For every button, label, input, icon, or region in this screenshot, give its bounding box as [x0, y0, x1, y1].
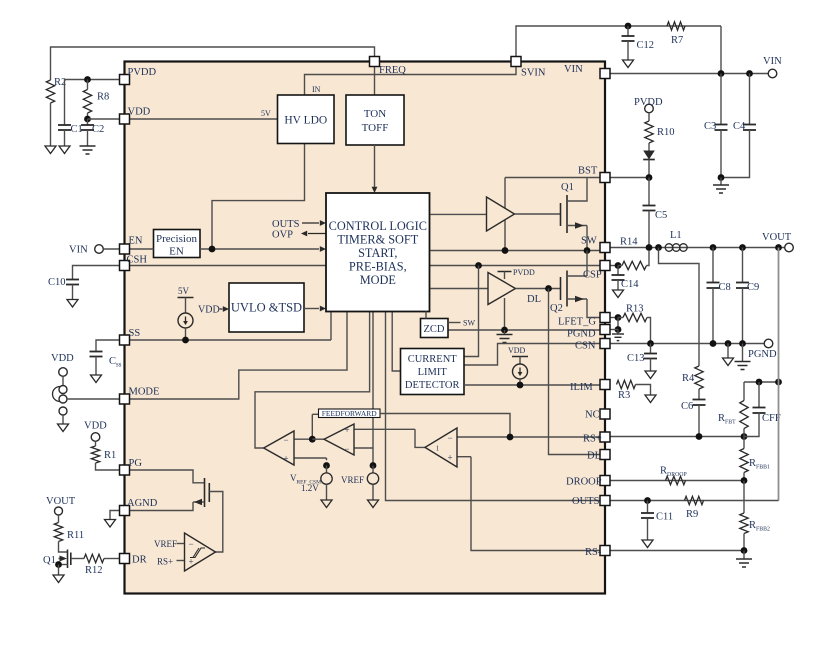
box ZCD — [421, 319, 449, 338]
pin BST — [600, 173, 610, 183]
svg-text:PG: PG — [129, 458, 143, 469]
label C1 — [71, 124, 83, 135]
label PVDD at driver2 — [498, 268, 536, 279]
svg-text:VDD: VDD — [128, 107, 151, 118]
capacitor C3 — [715, 74, 728, 178]
svg-text:5V: 5V — [261, 109, 271, 118]
svg-text:VIN: VIN — [763, 56, 782, 67]
label RDROOP — [660, 466, 687, 479]
label pin FREQ — [379, 65, 406, 76]
pin MODE — [120, 394, 130, 404]
transistor Q2 low side — [561, 271, 601, 318]
label OVP arrow — [272, 230, 326, 241]
wire VIN to EN pin — [103, 248, 119, 250]
svg-text:RFBB2: RFBB2 — [749, 520, 770, 533]
svg-text:PVDD: PVDD — [634, 97, 663, 108]
svg-text:RS+: RS+ — [583, 434, 602, 445]
pin SW — [600, 243, 610, 253]
pin CSN — [600, 339, 610, 349]
svg-text:AGND: AGND — [127, 498, 158, 509]
capacitor C4 — [721, 74, 756, 178]
ground earth on PGND row — [735, 344, 751, 370]
node gnd mid — [725, 340, 732, 347]
wire driver2 gnd rail — [504, 298, 506, 330]
ground below Q1 — [53, 575, 64, 583]
op-amp A feedforward — [264, 431, 327, 465]
wire FREQ stub — [374, 67, 376, 96]
ground below C2 — [80, 146, 96, 154]
capacitor C12 — [622, 26, 635, 60]
ground at PGND pin — [612, 330, 624, 341]
ground below RFBB2 — [736, 551, 752, 568]
wire HV LDO IN path — [305, 67, 517, 96]
svg-text:VDD: VDD — [51, 353, 74, 364]
svg-text:SS: SS — [129, 328, 141, 339]
svg-text:IN: IN — [312, 85, 321, 94]
label C2 — [92, 124, 104, 135]
pin NC — [600, 409, 610, 419]
svg-text:R8: R8 — [97, 92, 109, 103]
capacitor C6 — [693, 400, 706, 437]
ground below C3 C4 — [713, 178, 729, 194]
wire Precision EN to control logic — [200, 246, 326, 252]
node RS+/C6 — [696, 433, 703, 440]
node SS/5V — [182, 337, 189, 344]
capacitor Css — [90, 352, 103, 376]
pin FREQ — [370, 57, 380, 67]
terminal VIN at EN — [95, 245, 104, 254]
box TON TOFF — [346, 95, 404, 145]
wire DROOP row — [610, 480, 744, 482]
wire MODE internal staircase — [130, 312, 348, 400]
svg-text:C10: C10 — [48, 277, 66, 288]
pin DL — [600, 450, 610, 460]
label R13 — [626, 304, 644, 315]
svg-text:+: + — [283, 454, 288, 464]
pin CSH — [120, 261, 130, 271]
svg-text:VOUT: VOUT — [46, 496, 76, 507]
label pin AGND — [127, 498, 158, 509]
wire BST rail — [505, 177, 600, 179]
label pin NC — [585, 410, 600, 421]
svg-text:1.2V: 1.2V — [301, 483, 319, 493]
svg-text:LFET_G: LFET_G — [558, 317, 596, 328]
capacitor C2 — [81, 119, 94, 146]
label pin VIN — [564, 64, 583, 75]
ground arrow on PGND row — [723, 344, 734, 366]
ground internal driver2 — [497, 330, 513, 343]
comparator DR — [177, 533, 216, 571]
transistor Q1 external — [59, 550, 71, 569]
pin CSP — [600, 261, 610, 271]
svg-text:R1: R1 — [104, 450, 116, 461]
label pin DROOP — [566, 477, 602, 488]
wire SW row to VOUT — [610, 247, 785, 249]
source VREF_CSM 1.2V — [321, 458, 332, 508]
svg-text:1: 1 — [436, 445, 440, 453]
gray VOUT sense line — [778, 248, 780, 501]
wire FREQ top rail to R2 — [51, 47, 375, 80]
wire VIN pin to VIN terminal — [610, 73, 768, 75]
resistor RFBT — [740, 382, 748, 437]
ground below R3 — [645, 395, 656, 403]
svg-text:BST: BST — [578, 166, 598, 177]
svg-text:START,: START, — [358, 246, 397, 260]
label VDD at UVLO — [198, 305, 229, 316]
svg-text:OUTS: OUTS — [272, 219, 300, 230]
wire mode selector to MODE pin — [67, 398, 120, 400]
wire VDD row to HV LDO — [130, 118, 278, 120]
label pin DL — [587, 451, 601, 462]
svg-text:NC: NC — [585, 410, 600, 421]
label pin MODE — [129, 387, 160, 398]
wire mode selector gnd stem — [62, 415, 64, 424]
label C5 — [655, 210, 667, 221]
resistor R8 — [83, 80, 91, 120]
wire CSP pin to R14 — [610, 265, 618, 267]
label C10 — [48, 277, 66, 288]
driver U2 low side — [488, 273, 516, 305]
svg-text:ZCD: ZCD — [424, 324, 445, 335]
svg-text:UVLO &TSD: UVLO &TSD — [231, 301, 302, 315]
svg-text:TON: TON — [364, 108, 386, 120]
svg-text:C2: C2 — [92, 124, 104, 135]
svg-text:Css: Css — [109, 356, 122, 369]
pin OUTS — [600, 496, 610, 506]
resistor RDROOP — [666, 476, 686, 484]
svg-text:R14: R14 — [620, 237, 638, 248]
svg-text:R10: R10 — [657, 127, 675, 138]
node A minus/B out — [309, 436, 316, 443]
terminal VDD R1 — [91, 433, 100, 442]
svg-text:EN: EN — [129, 236, 143, 247]
svg-text:C13: C13 — [627, 353, 645, 364]
label pin RS+ — [583, 434, 602, 445]
label VREF at comparator — [154, 539, 177, 549]
label Css — [109, 356, 122, 369]
svg-text:+: + — [344, 425, 349, 435]
svg-text:PGND: PGND — [567, 329, 596, 340]
label pin CSP — [583, 270, 602, 281]
node VOUT/sense — [775, 244, 782, 251]
pin SS — [120, 335, 130, 345]
pin PGND — [600, 325, 610, 335]
wire SVIN rail with R7 — [516, 26, 721, 57]
svg-text:+: + — [447, 453, 452, 463]
ground below C14 — [613, 290, 624, 298]
node RS-/RFBB2 — [741, 547, 748, 554]
label C3 — [704, 121, 716, 132]
svg-text:C8: C8 — [719, 282, 731, 293]
ground below mode selector — [58, 424, 69, 432]
capacitor C9 — [736, 248, 749, 344]
svg-text:Q1: Q1 — [43, 555, 56, 566]
label R10 — [657, 127, 675, 138]
label pin PGND — [567, 329, 596, 340]
node VIN/C4 — [746, 70, 753, 77]
wire FF to RS+ node — [380, 414, 510, 438]
pin ILIM — [600, 380, 610, 390]
svg-text:Q2: Q2 — [550, 303, 563, 314]
ground below C10 — [67, 300, 78, 308]
svg-text:OVP: OVP — [272, 230, 293, 241]
node VOUT/C9 — [739, 244, 746, 251]
svg-text:R11: R11 — [67, 530, 84, 541]
node C3/C4 ground junction — [718, 174, 725, 181]
wire comp A output staircase — [255, 312, 370, 449]
label Q1 internal — [561, 182, 574, 193]
svg-text:RFBB1: RFBB1 — [749, 458, 770, 471]
node SW/Q1 source — [584, 247, 591, 254]
svg-text:R4: R4 — [682, 373, 695, 384]
node VOUT/C8 — [710, 244, 717, 251]
svg-text:OUTS: OUTS — [572, 496, 600, 507]
svg-text:ILIM: ILIM — [570, 382, 593, 393]
node VIN/C3 — [718, 70, 725, 77]
label R1 — [104, 450, 116, 461]
wire RS- row — [610, 550, 744, 552]
wire OUTS internal — [386, 312, 601, 501]
wire SW node to R4 snubber — [659, 248, 700, 367]
node C8 bottom — [710, 340, 717, 347]
driver U1 high side — [487, 197, 515, 231]
svg-text:C5: C5 — [655, 210, 667, 221]
label pin DR — [132, 555, 147, 566]
pin SVIN — [511, 57, 521, 67]
ground below R2 — [45, 146, 56, 154]
wire PGND pin stub — [610, 329, 618, 331]
wire SS internal row — [130, 312, 332, 341]
label pin CSH — [127, 255, 148, 266]
mode selector contact mid — [59, 395, 67, 403]
resistor R2 — [46, 80, 54, 146]
mode selector contact top — [59, 386, 67, 394]
label pin VDD — [128, 107, 151, 118]
label pin BST — [578, 166, 598, 177]
node ILIM/VDD source — [517, 382, 524, 389]
wire ZCD to control — [425, 312, 427, 319]
ground below C13 — [645, 371, 656, 379]
resistor RFBB1 — [740, 437, 748, 481]
node Q1 source — [55, 561, 62, 568]
wire C plus to RS- row — [471, 457, 600, 551]
pin DROOP — [600, 476, 610, 486]
node SW/C5/R14 — [646, 244, 653, 251]
wire RS+ internal row — [510, 436, 600, 438]
wire driver1 out to Q1 gate — [515, 213, 561, 215]
svg-text:FEEDFORWARD: FEEDFORWARD — [322, 409, 378, 418]
pin LFET_G — [600, 313, 610, 323]
wire PVDD row to C1 — [65, 80, 120, 126]
label L1 — [670, 230, 682, 241]
svg-text:C6: C6 — [681, 401, 693, 412]
capacitor C8 — [707, 248, 720, 344]
terminal VOUT R11 — [55, 507, 63, 515]
label R4 — [682, 373, 695, 384]
pin PG — [120, 465, 130, 475]
capacitor C1 — [58, 125, 71, 146]
label C6 — [681, 401, 693, 412]
label pin LFET_G — [558, 317, 596, 328]
svg-text:−: − — [344, 444, 349, 454]
node DROOP/RFBB1 — [741, 477, 748, 484]
mode selector arc — [53, 387, 61, 402]
svg-text:C1: C1 — [71, 124, 83, 135]
resistor RFBB2 — [740, 481, 748, 551]
node PGND ext — [615, 326, 622, 333]
label R2 — [54, 77, 66, 88]
svg-text:5V: 5V — [178, 286, 190, 296]
svg-text:DETECTOR: DETECTOR — [405, 380, 460, 391]
current source 5V — [178, 286, 194, 340]
box CONTROL LOGIC — [326, 193, 430, 312]
label RFBB1 — [749, 458, 770, 471]
box CURRENT LIMIT DETECTOR — [401, 349, 465, 395]
svg-text:R12: R12 — [85, 565, 103, 576]
terminal PVDD supply — [645, 104, 654, 113]
ground below C1 — [59, 146, 70, 154]
node PGND/driver2 — [501, 327, 508, 334]
svg-text:HV LDO: HV LDO — [284, 115, 327, 127]
resistor R10 — [645, 113, 653, 151]
wire CSP to CLD — [464, 266, 479, 357]
label C14 — [621, 279, 639, 290]
label R3 — [618, 390, 630, 401]
label RS+ at comparator — [157, 557, 173, 567]
label pin SW — [581, 236, 597, 247]
label VOUT terminal — [762, 232, 792, 243]
pin AGND — [120, 506, 130, 516]
pin EN — [120, 244, 130, 254]
op-amp B feedforward — [324, 424, 415, 455]
label R11 — [67, 530, 84, 541]
label 5V at HV LDO — [261, 109, 271, 118]
node fbtop/CFF — [756, 379, 763, 386]
svg-text:C4: C4 — [733, 121, 746, 132]
source VREF — [367, 462, 378, 507]
node RS+/FF — [507, 434, 514, 441]
svg-text:VREF: VREF — [341, 475, 364, 485]
pin RS- — [600, 546, 610, 556]
svg-text:R9: R9 — [686, 509, 698, 520]
label IN — [312, 85, 321, 94]
svg-text:−: − — [188, 539, 193, 549]
IC body MAX17xx controller outline — [125, 62, 606, 594]
label VIN terminal — [763, 56, 782, 67]
svg-text:VOUT: VOUT — [762, 232, 792, 243]
wire BST pin to diode — [610, 177, 649, 179]
box HV LDO — [278, 95, 335, 144]
wire HV LDO output to EN node — [212, 144, 305, 250]
svg-text:VDD: VDD — [508, 346, 526, 355]
svg-text:Precision: Precision — [156, 233, 197, 245]
node C12 top — [625, 23, 632, 30]
capacitor C11 — [641, 501, 654, 541]
capacitor CFF — [744, 382, 766, 437]
box UVLO TSD — [229, 283, 304, 332]
wire EN pin to Precision EN — [130, 248, 154, 250]
svg-text:VIN: VIN — [564, 64, 583, 75]
wire driver1 input — [431, 213, 487, 215]
pin VIN — [600, 69, 610, 79]
label pin OUTS — [572, 496, 600, 507]
svg-text:C12: C12 — [637, 40, 655, 51]
wire OUTS row — [610, 500, 779, 502]
svg-text:R3: R3 — [618, 390, 630, 401]
svg-text:FREQ: FREQ — [379, 65, 406, 76]
label SW at ZCD — [448, 319, 475, 328]
svg-text:R13: R13 — [626, 304, 644, 315]
current source VDD — [508, 346, 528, 385]
wire VDD mode stem — [62, 376, 64, 385]
node CSP internal — [475, 262, 482, 269]
label C11 — [656, 512, 673, 523]
svg-text:CSP: CSP — [583, 270, 602, 281]
box FEEDFORWARD — [312, 409, 380, 439]
terminal VOUT — [785, 243, 794, 252]
terminal PGND — [764, 339, 773, 348]
label Q2 internal — [550, 303, 563, 314]
label RFBB2 — [749, 520, 770, 533]
ground below C12 — [623, 60, 634, 68]
label PVDD supply — [634, 97, 663, 108]
label R7 — [671, 35, 683, 46]
svg-text:CURRENT: CURRENT — [408, 354, 458, 365]
svg-text:−: − — [283, 435, 288, 445]
ground below Css — [91, 375, 102, 383]
svg-text:RDROOP: RDROOP — [660, 466, 687, 479]
label pin SVIN — [521, 68, 546, 79]
op-amp C unity buffer — [425, 428, 510, 467]
label DL — [527, 294, 541, 305]
node SW/driver1 rail — [502, 247, 509, 254]
node BST/C5 — [646, 174, 653, 181]
svg-text:C11: C11 — [656, 512, 673, 523]
svg-text:C3: C3 — [704, 121, 716, 132]
node PVDD/R8 junction — [84, 76, 91, 83]
label R12 — [85, 565, 103, 576]
wire B tip to node — [312, 438, 324, 440]
label pin SS — [129, 328, 141, 339]
pin RS+ — [600, 432, 610, 442]
wire CSH to C10 — [73, 266, 120, 280]
capacitor C13 — [644, 344, 657, 372]
svg-text:VDD: VDD — [84, 421, 107, 432]
svg-text:RFBT: RFBT — [718, 413, 736, 426]
node R8/VDD junction — [84, 116, 91, 123]
resistor R3 — [617, 380, 651, 395]
svg-text:LIMIT: LIMIT — [418, 367, 448, 378]
svg-text:C9: C9 — [747, 282, 759, 293]
wire PGND internal row — [448, 329, 600, 331]
transistor Q1 high side — [561, 178, 588, 251]
svg-text:DROOP: DROOP — [566, 477, 602, 488]
wire SS to Css — [96, 340, 120, 352]
svg-text:−: − — [447, 433, 452, 443]
label C8 — [719, 282, 731, 293]
wire LFETG to PGND pin — [617, 318, 619, 330]
label pin PVDD — [128, 67, 157, 78]
inductor L1 — [665, 244, 687, 252]
svg-text:PGND: PGND — [748, 349, 777, 360]
resistor R9 — [685, 496, 704, 504]
label pin PG — [129, 458, 143, 469]
label CFF — [762, 413, 781, 424]
svg-text:R7: R7 — [671, 35, 683, 46]
node SW/L1 branch — [655, 244, 662, 251]
capacitor C10 — [66, 280, 79, 300]
label VREF_CSM — [290, 473, 321, 493]
